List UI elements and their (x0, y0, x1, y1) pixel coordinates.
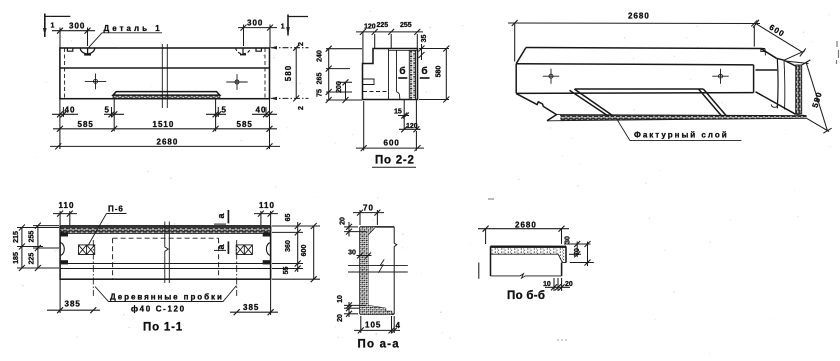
svg-text:По 1-1: По 1-1 (143, 322, 183, 334)
svg-text:240: 240 (317, 50, 324, 62)
svg-text:580: 580 (436, 66, 443, 78)
svg-text:5: 5 (105, 106, 110, 115)
svg-text:2680: 2680 (515, 220, 537, 229)
svg-text:385: 385 (243, 303, 259, 312)
svg-text:4: 4 (396, 321, 401, 330)
svg-text:110: 110 (259, 201, 275, 210)
svg-text:200: 200 (336, 81, 343, 93)
svg-text:2: 2 (298, 42, 305, 46)
svg-text:10: 10 (543, 281, 551, 288)
svg-text:По а-а: По а-а (358, 339, 400, 351)
svg-text:120: 120 (364, 24, 376, 31)
svg-text:15: 15 (394, 109, 402, 116)
svg-text:2680: 2680 (157, 138, 179, 147)
svg-text:2: 2 (298, 106, 305, 110)
svg-text:360: 360 (285, 240, 292, 252)
svg-text:185: 185 (13, 252, 20, 264)
svg-text:Деревянные пробки: Деревянные пробки (110, 293, 224, 302)
svg-text:300: 300 (247, 19, 263, 28)
svg-text:225: 225 (377, 22, 389, 29)
svg-text:600: 600 (384, 139, 400, 148)
svg-text:300: 300 (69, 22, 85, 31)
svg-text:585: 585 (237, 120, 253, 129)
svg-text:105: 105 (365, 321, 381, 330)
svg-text:70: 70 (363, 204, 374, 213)
svg-text:55: 55 (283, 267, 290, 275)
svg-text:600: 600 (301, 245, 308, 257)
svg-text:40: 40 (65, 106, 76, 115)
svg-text:265: 265 (317, 73, 324, 85)
svg-text:65: 65 (285, 214, 292, 222)
svg-text:215: 215 (13, 231, 20, 243)
svg-text:75: 75 (317, 89, 324, 97)
svg-text:40: 40 (256, 106, 267, 115)
svg-text:385: 385 (65, 300, 81, 309)
svg-text:10: 10 (337, 295, 344, 303)
svg-text:По б-б: По б-б (507, 290, 545, 302)
svg-text:35: 35 (421, 35, 428, 43)
svg-text:110: 110 (59, 201, 75, 210)
svg-text:ф40 С-120: ф40 С-120 (131, 305, 186, 314)
svg-text:Фактурный слой: Фактурный слой (634, 131, 729, 140)
svg-text:Деталь 1: Деталь 1 (104, 24, 163, 33)
svg-text:б: б (421, 65, 427, 77)
svg-text:255: 255 (29, 231, 36, 243)
svg-text:5: 5 (222, 106, 227, 115)
svg-text:255: 255 (400, 22, 412, 29)
svg-text:1: 1 (281, 24, 285, 31)
svg-text:30: 30 (348, 250, 356, 257)
svg-text:20: 20 (565, 281, 573, 288)
svg-text:20: 20 (340, 217, 347, 225)
svg-text:585: 585 (78, 120, 94, 129)
svg-text:По 2-2: По 2-2 (375, 155, 415, 167)
svg-text:30: 30 (565, 236, 572, 244)
svg-text:1: 1 (51, 23, 55, 30)
svg-text:580: 580 (284, 65, 293, 81)
svg-text:225: 225 (29, 253, 36, 265)
svg-text:20: 20 (337, 314, 344, 322)
svg-text:70: 70 (574, 248, 581, 256)
svg-text:2680: 2680 (628, 12, 650, 21)
svg-text:120: 120 (406, 123, 418, 130)
svg-text:П-6: П-6 (108, 205, 124, 214)
svg-text:б: б (399, 65, 405, 77)
svg-text:1510: 1510 (153, 120, 175, 129)
